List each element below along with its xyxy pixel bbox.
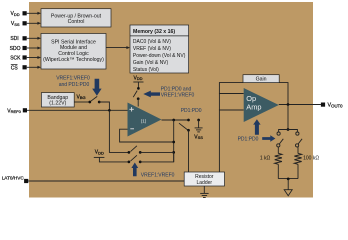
wire VREF0 to buffer input [27,109,128,111]
memory box [130,25,189,73]
svg-text:VBG: VBG [77,94,86,100]
label VREF1:VREF0 and PD1:PD0 (bandgap switch control) [56,76,90,89]
wire junction down to unbuffered switch row [109,110,128,152]
svg-text:Status (Vol): Status (Vol) [133,67,159,73]
wire CS to SPI box [27,66,41,69]
svg-text:Memory (32 x 16): Memory (32 x 16) [133,29,175,35]
switch 1k arm [279,139,283,144]
VDD supply bar [133,81,143,83]
node resistor branch junction [287,128,290,131]
wire gain feedback loop [219,83,288,105]
svg-text:CS: CS [11,65,19,71]
resistor 100k [294,147,301,179]
control arrow up (op amp PD) [253,119,260,134]
switch VBG (VREF select) [88,96,100,103]
wire ladder wiper to op amp + [219,110,243,172]
pin SCK [10,55,26,61]
wire SPI to memory [106,46,130,49]
label PD1:PD0 and VREF1:VREF0 [161,87,195,99]
wire op amp output [279,104,321,106]
svg-text:SDO: SDO [10,46,21,52]
switch 100k contact bottom [296,144,299,147]
pin CS (active low) [11,65,27,72]
wire output to pd resistors [287,105,289,130]
switch 1k contact top [277,132,280,135]
pin LAT0/HVC [2,175,29,183]
svg-text:VREF1:VREF0: VREF1:VREF0 [56,76,90,82]
SPI serial interface box [41,34,106,70]
switch VDD row [128,152,174,163]
op-amp output amplifier [244,88,279,122]
wire VDD to power-up box [27,12,41,15]
ground (output divider) [284,179,292,196]
switch 1k contact bottom [277,144,280,147]
wire output bus vertical [173,120,175,162]
bandgap box [41,93,74,107]
op-amp buffer (1) [128,103,162,137]
wire VSS to power-up box [27,22,41,25]
svg-text:VSS: VSS [11,21,20,27]
control arrow right (output switches) [262,135,275,142]
svg-text:VDD: VDD [95,150,104,156]
ground (resistor ladder) [200,186,208,198]
svg-text:Gain: Gain [256,77,267,83]
pin SDI [10,36,26,42]
svg-text:(WiperLock™ Technology): (WiperLock™ Technology) [43,57,104,63]
gain box [243,75,279,83]
wire SDO to SPI box [27,47,41,50]
wire buffer output [162,119,189,121]
svg-text:Gain (Vol & NV): Gain (Vol & NV) [133,60,169,66]
wire bandgap to VBG switch [74,101,89,103]
svg-text:PD1:PD0: PD1:PD0 [238,136,259,142]
svg-text:Control: Control [68,19,85,25]
switch 100k arm [298,139,302,144]
node resistor bottom junction [287,178,290,181]
pin VOUT0 [321,103,343,109]
svg-text:VREF1:VREF0: VREF1:VREF0 [161,93,195,99]
node junction VREF0/VBG [108,109,111,112]
svg-text:VREF (Vol & NV): VREF (Vol & NV) [133,46,171,52]
pin SDO [10,46,27,52]
svg-text:Amp: Amp [246,103,261,112]
power-up / brown-out control box [41,9,111,27]
wire buffer feedback loop [120,129,174,142]
svg-text:VDD: VDD [10,11,19,17]
wire SDI to SPI box [27,37,41,40]
svg-text:(1.22V): (1.22V) [49,101,66,107]
svg-text:VREF0: VREF0 [7,108,21,114]
switch 100k contact top [296,132,299,135]
VDD supply bar lower [94,156,105,158]
svg-text:PD1:PD0: PD1:PD0 [181,108,202,114]
node output junction [287,103,290,106]
wire VDD bar to switch [137,82,139,88]
svg-text:LAT0/HVC: LAT0/HVC [2,175,25,180]
resistor 1k [275,147,282,179]
pin VSS [11,21,27,27]
svg-text:VREF1:VREF0: VREF1:VREF0 [141,172,175,178]
node unbuffered row junction [172,151,175,154]
switch ladder connect [179,119,190,172]
chip body [29,2,313,198]
svg-text:SCK: SCK [10,55,21,61]
svg-text:Ladder: Ladder [197,180,213,186]
wire branch bar [279,130,298,132]
control arrow down to VBG switch [92,79,101,96]
switch unbuffered VREF row [128,146,174,154]
pin VDD [10,11,26,17]
node feedback junction [172,141,175,144]
svg-text:VSS: VSS [194,134,203,140]
ground VSS (ladder power-down) [194,119,203,141]
resistor ladder box [184,172,224,186]
wire VBG switch to VREF0 line [99,102,109,110]
control arrow up (VREF1:VREF0 row switches) [131,163,138,177]
svg-text:VDD: VDD [133,75,142,81]
svg-text:1 kΩ: 1 kΩ [260,156,271,162]
svg-text:VOUT0: VOUT0 [328,103,344,109]
switch VDD to buffer input [133,87,140,106]
svg-text:SDI: SDI [10,36,18,42]
wire SCK to SPI box [27,56,41,59]
wire LAT0/HVC to resistor ladder [28,180,184,182]
svg-text:DAC0 (Vol & NV): DAC0 (Vol & NV) [133,39,171,45]
pin VREF0 [7,108,27,114]
svg-text:Power-down (Vol & NV): Power-down (Vol & NV) [133,53,186,59]
svg-text:100 kΩ: 100 kΩ [303,156,319,162]
svg-text:and PD1:PD0: and PD1:PD0 [59,82,90,88]
node buffer output junction [172,119,175,122]
wire resistor bottom bar [278,178,298,180]
wire VDD lower to switch row [99,157,128,162]
svg-text:(1): (1) [141,118,147,123]
control arrow left (PD1:PD0 and VREF1:VREF0) [143,91,160,98]
